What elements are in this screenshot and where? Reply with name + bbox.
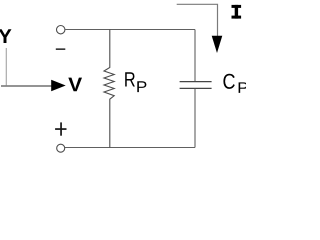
terminal bottom bbox=[57, 144, 65, 152]
wire I current indicator bbox=[177, 4, 218, 36]
capacitor C_P top lead bbox=[194, 30, 196, 82]
minus sign bbox=[56, 48, 66, 50]
label C of CP bbox=[223, 74, 234, 89]
plus sign bbox=[55, 122, 66, 135]
wire bottom bbox=[65, 147, 195, 149]
label R of RP bbox=[125, 72, 135, 86]
label I (serif capital I drawn with bars) bbox=[232, 5, 242, 19]
node Y label bbox=[0, 29, 12, 43]
arrowhead I bbox=[212, 36, 223, 53]
label P subscript of CP bbox=[239, 82, 248, 93]
capacitor C_P bottom plate bbox=[180, 87, 212, 89]
capacitor C_P top plate bbox=[180, 81, 212, 83]
wire Y indicator vertical bbox=[5, 48, 7, 85]
label P subscript of RP bbox=[137, 81, 146, 92]
arrowhead V bbox=[51, 80, 65, 91]
terminal top bbox=[57, 26, 65, 34]
wire top bbox=[65, 29, 195, 31]
wire V arrow horizontal bbox=[1, 85, 52, 87]
capacitor C_P bottom lead bbox=[194, 89, 196, 148]
node V label bbox=[68, 78, 82, 92]
resistor R_P bbox=[104, 30, 114, 148]
